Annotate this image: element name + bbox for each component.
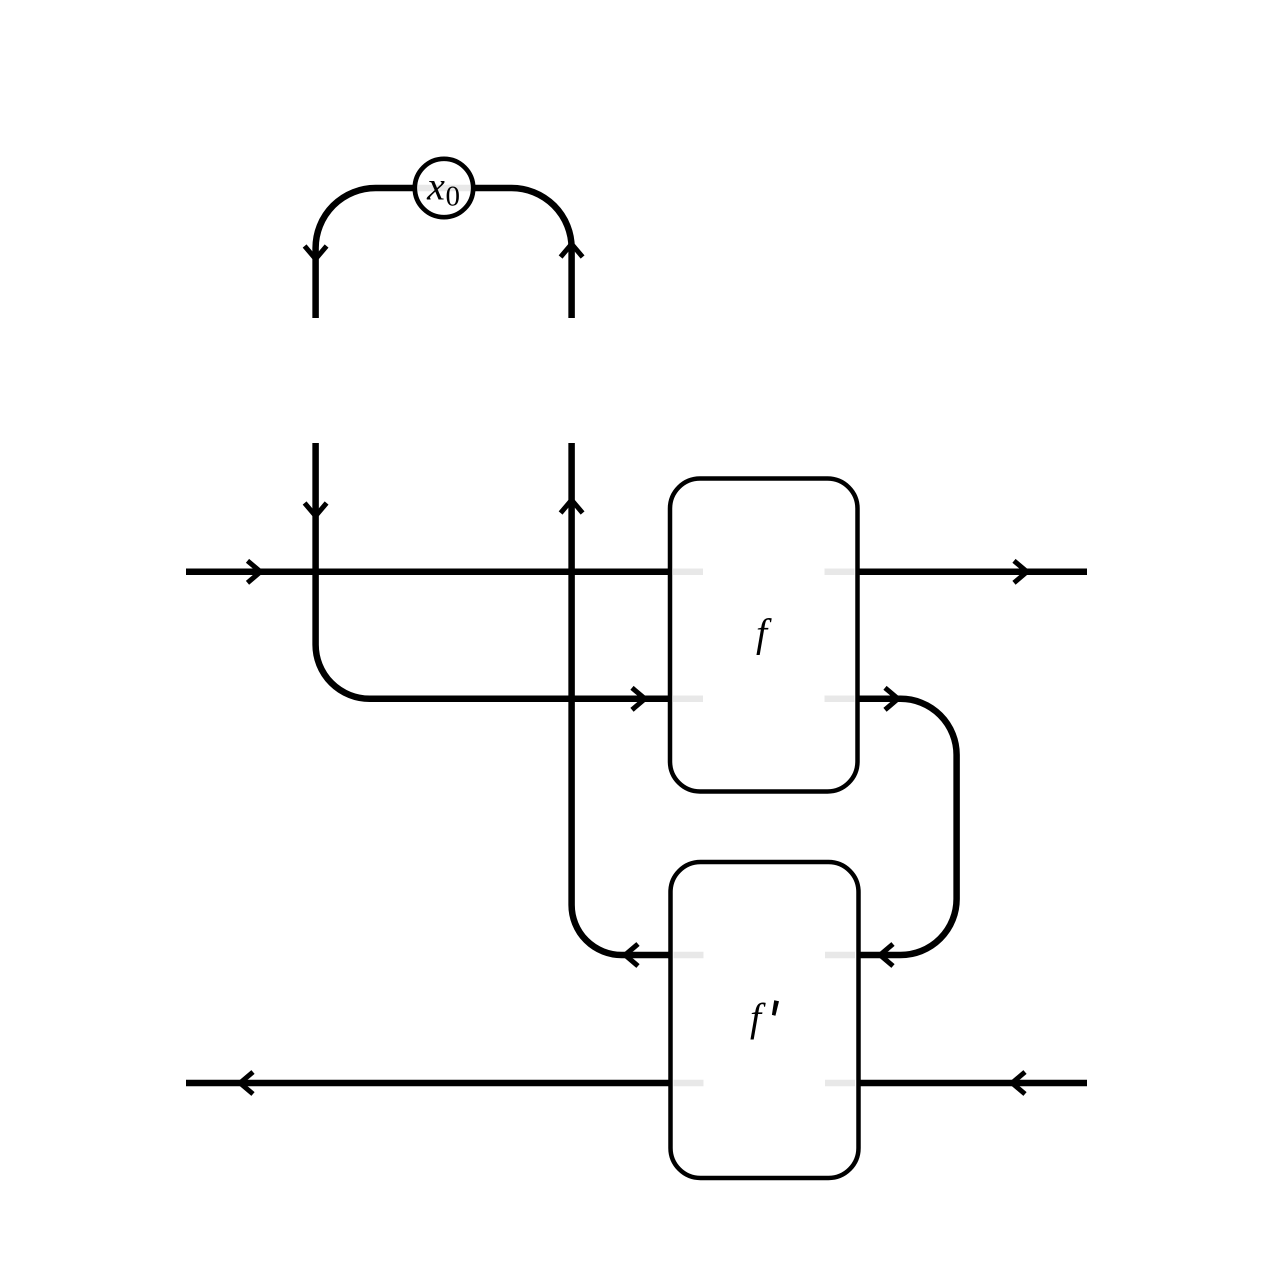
port f left-top	[673, 569, 703, 576]
node x0 gray wire band	[418, 185, 471, 192]
arrowhead right on top-right horizontal	[1014, 561, 1027, 583]
arrowhead down on cap left vertical	[305, 246, 327, 259]
port f' right-top	[825, 952, 855, 959]
node x0 circle	[415, 159, 473, 217]
wire: f' left output going left then up to cap right vertical	[572, 443, 674, 955]
svg-text:x: x	[426, 164, 445, 209]
port f' left-top	[674, 952, 704, 959]
arrowhead left on f' left output	[625, 944, 638, 966]
box f'	[671, 862, 859, 1178]
port f right-top	[825, 569, 855, 576]
arrowhead right on f second output	[885, 688, 898, 710]
arrowhead up on right vertical	[561, 500, 583, 513]
arrowhead right on top-left horizontal	[248, 561, 261, 583]
wire: bottom horizontal through f'	[186, 1080, 1087, 1087]
arrowhead right on wire into f second input	[632, 688, 645, 710]
port f left-bottom	[673, 696, 703, 703]
arrowhead left on bottom-right horizontal	[1012, 1072, 1025, 1094]
port f right-bottom	[825, 696, 855, 703]
wire: cap from left vertical over x0 node to right vertical	[316, 188, 572, 318]
wire: left vertical lower segment into f second input, through f, out and big right curve down into f' right input	[316, 443, 957, 955]
port f' right-bottom	[825, 1080, 855, 1087]
svg-text:0: 0	[446, 181, 461, 213]
box f	[670, 479, 858, 792]
wire: top horizontal through f	[186, 569, 1087, 576]
arrowhead left into f' right input	[880, 944, 893, 966]
arrowhead left on bottom-left horizontal	[240, 1072, 253, 1094]
arrowhead down on left vertical	[305, 503, 327, 516]
label f prime tick	[772, 1000, 779, 1016]
arrowhead up on cap right vertical	[561, 244, 583, 257]
port f' left-bottom	[674, 1080, 704, 1087]
